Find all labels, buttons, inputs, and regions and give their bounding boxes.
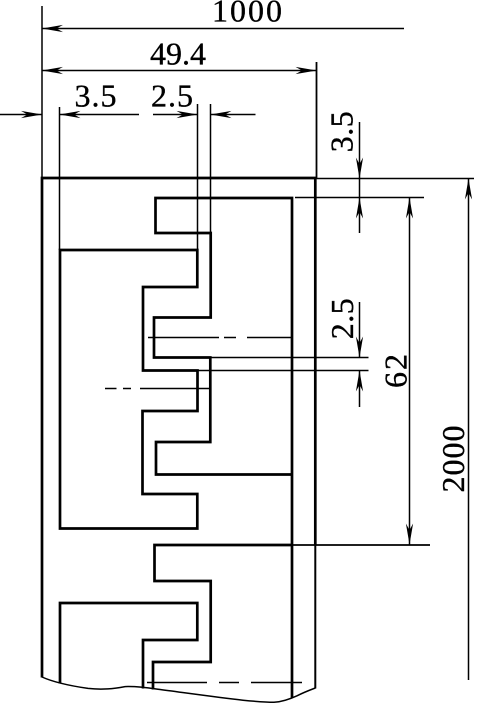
dimension 2.5 top: arrows bbox=[177, 111, 198, 118]
right comb lower block bbox=[153, 545, 292, 690]
extension line y=179 (right of part, for 3.5 and 2000) bbox=[316, 178, 474, 180]
dimension 2000: line and arrow bbox=[468, 179, 470, 681]
extension of y=545 to the right (62 bottom) bbox=[292, 544, 430, 546]
svg-text:3.5: 3.5 bbox=[324, 111, 360, 153]
svg-text:49.4: 49.4 bbox=[150, 36, 206, 72]
right comb wall and upper block with teeth bbox=[154, 198, 292, 698]
svg-text:1000: 1000 bbox=[212, 0, 284, 29]
extension line left (x=42 above part) bbox=[41, 6, 43, 178]
dimension 62: line and arrows bbox=[409, 198, 411, 545]
extension line x=316 (49.4 right) bbox=[316, 62, 318, 178]
dimension 2.5 right: shafts and arrows bbox=[359, 302, 361, 407]
left comb block upper (notched) bbox=[60, 250, 198, 529]
dimension 3.5 right: shafts and arrows bbox=[359, 122, 361, 233]
left comb block lower (to break) bbox=[60, 603, 197, 689]
centerline y=682 (dash-dot, bottom) bbox=[147, 682, 302, 684]
dimension 49.4: line and arrows bbox=[42, 70, 317, 72]
dimension 3.5 top: lines and arrows bbox=[0, 114, 256, 116]
extension line x=211 bbox=[210, 104, 212, 233]
svg-text:62: 62 bbox=[378, 352, 414, 388]
svg-text:3.5: 3.5 bbox=[75, 78, 118, 114]
svg-text:2.5: 2.5 bbox=[151, 78, 194, 114]
slot extension lines y=358 / y=370.5 bbox=[198, 358, 369, 371]
svg-text:2.5: 2.5 bbox=[324, 298, 360, 340]
extension line y=197 (right of part, for 3.5 and 62) bbox=[295, 197, 424, 199]
svg-text:2000: 2000 bbox=[435, 425, 471, 493]
part right edge lower thin continuation bbox=[314, 545, 316, 689]
dimension 1000: line bbox=[42, 28, 404, 30]
extension line x=60 bbox=[59, 107, 61, 250]
break line (wavy) bbox=[42, 677, 315, 702]
centerline y=337 (dash-dot) bbox=[148, 337, 292, 339]
extension line x=197 bbox=[197, 104, 199, 250]
centerline y=388 (dash-dot) bbox=[105, 388, 211, 390]
part outer outline: top edge, left edge, right wall bbox=[42, 178, 315, 678]
